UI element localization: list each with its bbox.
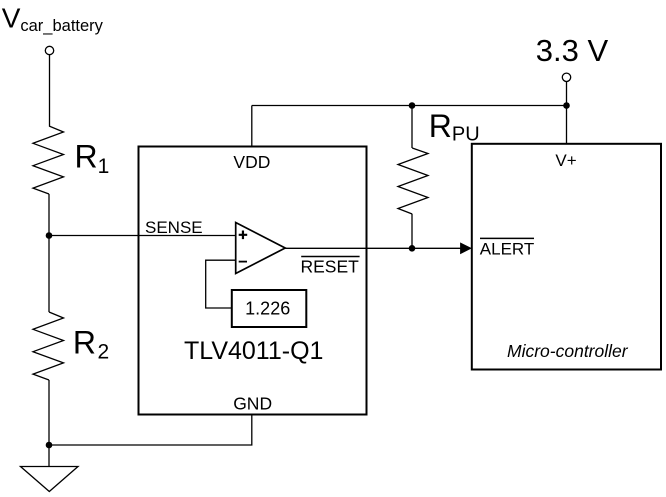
svg-text:VDD: VDD bbox=[233, 152, 270, 172]
resistor R1 bbox=[33, 126, 64, 194]
overline ALERT bbox=[480, 237, 534, 239]
node RESET/RPU junction bbox=[409, 245, 416, 252]
node 3.3V rail junction bbox=[563, 102, 570, 109]
terminal 3.3 V bbox=[562, 73, 570, 81]
node ground junction bbox=[46, 442, 53, 449]
svg-text:SENSE: SENSE bbox=[145, 218, 203, 237]
wire bbox=[48, 236, 50, 313]
wire bbox=[48, 445, 50, 467]
op-amp + input marker bbox=[239, 231, 248, 240]
svg-text:GND: GND bbox=[233, 394, 272, 414]
voltage reference 1.226 box bbox=[232, 290, 306, 327]
IC U1 TLV4011-Q1 box bbox=[139, 147, 367, 415]
resistor RPU bbox=[398, 148, 428, 214]
wire bbox=[49, 55, 51, 126]
wire bbox=[285, 247, 461, 249]
node VDD rail / RPU junction bbox=[409, 102, 416, 109]
wire bbox=[566, 82, 568, 144]
overline RESET bbox=[301, 256, 359, 258]
wire bbox=[411, 214, 413, 248]
op-amp U1 comparator bbox=[236, 223, 286, 274]
op-amp - input marker bbox=[239, 261, 247, 263]
wire bbox=[411, 106, 413, 149]
node divider/SENSE junction bbox=[46, 232, 53, 239]
arrowhead into ALERT bbox=[461, 243, 471, 253]
svg-text:1.226: 1.226 bbox=[245, 299, 290, 319]
terminal V_car_battery bbox=[45, 46, 53, 54]
svg-text:RESET: RESET bbox=[301, 257, 360, 277]
svg-text:3.3 V: 3.3 V bbox=[536, 33, 609, 68]
wire bbox=[251, 106, 253, 147]
svg-text:TLV4011-Q1: TLV4011-Q1 bbox=[184, 337, 323, 365]
wire bbox=[49, 235, 236, 237]
IC U2 Micro-controller box bbox=[472, 144, 661, 370]
wire bbox=[48, 380, 50, 445]
svg-text:V+: V+ bbox=[555, 151, 576, 170]
wire bbox=[206, 260, 236, 308]
wire bbox=[252, 105, 567, 107]
wire bbox=[49, 415, 252, 446]
svg-text:Micro-controller: Micro-controller bbox=[507, 341, 629, 361]
ground bbox=[21, 467, 79, 492]
resistor R2 bbox=[33, 312, 64, 380]
svg-text:ALERT: ALERT bbox=[480, 239, 535, 258]
wire bbox=[48, 194, 50, 236]
